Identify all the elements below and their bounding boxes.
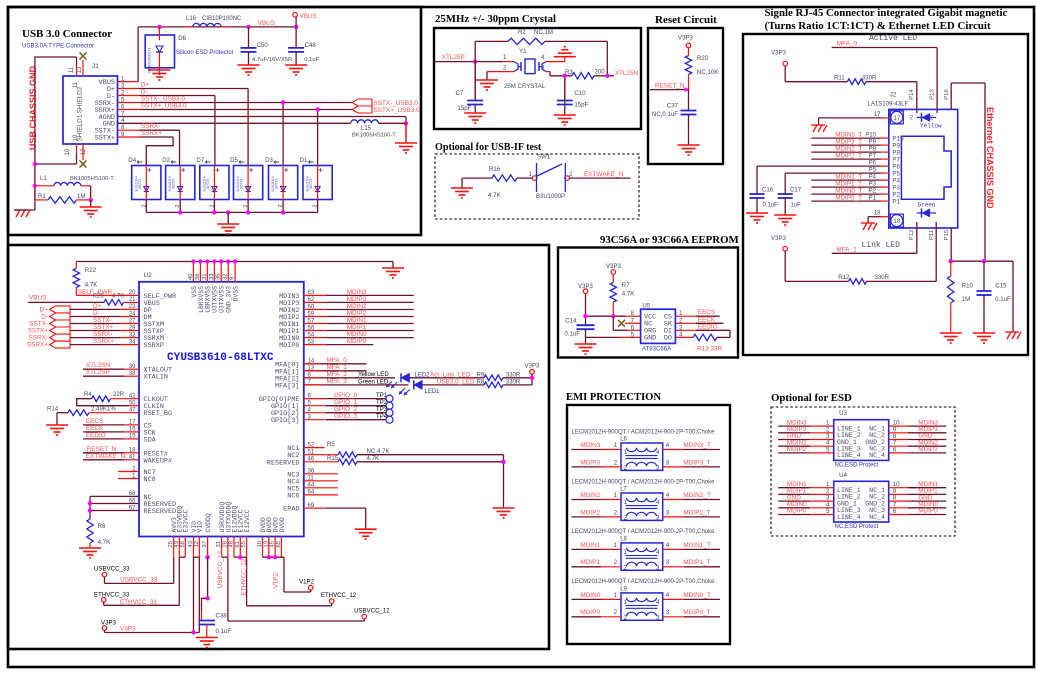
ground D6 — [148, 69, 170, 71]
svg-text:C17: C17 — [790, 187, 802, 194]
resistor R22 — [75, 262, 77, 269]
wire SSRX- pin8 — [118, 129, 140, 131]
svg-text:V1P2: V1P2 — [272, 572, 279, 588]
svg-text:MDIN1_T: MDIN1_T — [835, 174, 862, 181]
svg-text:1: 1 — [624, 549, 628, 556]
svg-text:3: 3 — [656, 464, 660, 471]
wire ETHVCC_12 net — [234, 556, 247, 558]
svg-text:MDIP2: MDIP2 — [787, 446, 807, 453]
svg-text:GND: GND — [644, 335, 656, 343]
wire U3 left pin 1 — [778, 425, 810, 427]
svg-text:D2: D2 — [162, 157, 170, 164]
svg-text:MDIP0: MDIP0 — [918, 508, 938, 515]
diode D5 — [234, 166, 263, 200]
svg-text:VBUS: VBUS — [29, 295, 46, 302]
svg-text:LECM2012H-900QT / ACM2012H-900: LECM2012H-900QT / ACM2012H-900-2P-T00,Ch… — [572, 429, 716, 435]
wire Y1 pin3 down — [549, 72, 551, 76]
svg-text:SOT23: SOT23 — [309, 179, 313, 189]
svg-text:EECS: EECS — [698, 309, 715, 316]
svg-text:NC,ESD Protect: NC,ESD Protect — [835, 463, 879, 469]
LED LED2 — [401, 373, 410, 382]
wire SSRX+ row — [70, 344, 120, 346]
wire R4 to CLKIN — [77, 399, 129, 406]
svg-text:SSTX+_USB3.0: SSTX+_USB3.0 — [374, 107, 420, 114]
svg-text:C50: C50 — [257, 42, 269, 49]
wire NC7 stub — [118, 471, 139, 473]
wire EECS — [83, 424, 124, 426]
resistor R6 — [87, 519, 93, 543]
svg-text:15pF: 15pF — [458, 105, 472, 112]
svg-text:MDIN3_T: MDIN3_T — [835, 132, 862, 139]
svg-text:NC,10K: NC,10K — [697, 69, 718, 76]
wire MFA_2 row — [304, 377, 395, 379]
wire R5-R15 join — [503, 455, 505, 508]
svg-text:MFA_1: MFA_1 — [836, 246, 857, 253]
wire MDIN2 choke in — [572, 499, 602, 501]
wire NC1 stub — [304, 447, 325, 449]
wire MDIP0_T choke out — [663, 616, 684, 618]
wire NC pin7 — [625, 322, 641, 324]
svg-text:LA1S109-43LF: LA1S109-43LF — [868, 102, 909, 108]
wire MDIN3 choke in — [572, 449, 602, 451]
wire EECK — [675, 322, 696, 324]
svg-text:MFA_3: MFA_3 — [327, 378, 348, 385]
wire D- pin2 — [118, 95, 140, 97]
svg-text:MDIP1_T: MDIP1_T — [835, 181, 862, 188]
wire L1-R1 loop — [34, 186, 36, 200]
svg-text:USB CHASSIS GND: USB CHASSIS GND — [28, 65, 38, 150]
svg-text:D4: D4 — [128, 157, 136, 164]
svg-text:SW1: SW1 — [537, 154, 551, 161]
svg-text:SDA: SDA — [144, 436, 157, 444]
IC bottom pin stubs — [173, 537, 175, 558]
svg-text:D+: D+ — [40, 306, 49, 313]
svg-text:VBUS: VBUS — [300, 13, 317, 20]
wire SSRX- row — [70, 337, 120, 339]
VSS stubs — [192, 262, 194, 282]
svg-text:D1: D1 — [300, 157, 308, 164]
svg-text:Act_Link_LED: Act_Link_LED — [430, 371, 471, 378]
junction R1 out — [89, 198, 93, 202]
wire MFA_1 — [304, 370, 367, 372]
svg-text:D7: D7 — [196, 157, 204, 164]
ground VSS rail — [382, 267, 404, 269]
svg-text:L9: L9 — [620, 586, 627, 592]
svg-text:L15: L15 — [361, 126, 372, 132]
wire chassis bottom rail — [951, 260, 1013, 262]
LED LED1 — [414, 380, 423, 389]
svg-text:GPIO_3: GPIO_3 — [334, 413, 358, 420]
junction reserved2 — [88, 508, 92, 512]
svg-text:18: 18 — [874, 211, 881, 217]
svg-text:22R: 22R — [113, 391, 125, 398]
ground R6 — [79, 547, 101, 549]
junction led v3p3 — [530, 376, 534, 380]
wire U3 right pin 9 — [889, 432, 908, 434]
svg-text:VSS: VSS — [191, 286, 198, 298]
wires MDI_T rows to rj45 — [811, 137, 881, 139]
svg-text:ETHVCC_12: ETHVCC_12 — [321, 592, 357, 599]
svg-text:E33VCC: E33VCC — [183, 509, 190, 532]
svg-text:D3: D3 — [265, 157, 273, 164]
svg-text:Active LED: Active LED — [869, 34, 917, 43]
svg-text:EEDIO: EEDIO — [86, 432, 106, 439]
diode D7 — [200, 166, 229, 200]
junction VCC-C14 — [583, 314, 587, 318]
svg-text:Yellow: Yellow — [920, 123, 942, 130]
svg-text:SSTX-: SSTX- — [93, 317, 112, 324]
wire MDIN0 choke in — [572, 598, 602, 600]
wire D+ row — [70, 308, 120, 310]
chassis ground USB left — [14, 209, 28, 211]
wire SSTX+ pin6 — [118, 109, 140, 111]
nc mark pin12 — [80, 161, 87, 168]
main IC section box — [8, 245, 549, 649]
svg-text:D5: D5 — [230, 157, 238, 164]
svg-text:MDIN3: MDIN3 — [347, 289, 367, 296]
svg-text:MDIP1: MDIP1 — [347, 324, 367, 331]
wire P16 chassis — [950, 83, 952, 109]
svg-text:ETHVCC_33: ETHVCC_33 — [120, 599, 157, 606]
wire EECK — [83, 431, 124, 433]
svg-text:MDIN1: MDIN1 — [347, 317, 367, 324]
svg-text:P3: P3 — [869, 182, 877, 188]
svg-text:5: 5 — [826, 508, 830, 515]
wire GND row — [586, 336, 621, 338]
capacitor C16 — [756, 166, 758, 194]
svg-text:SSTX+: SSTX+ — [28, 328, 49, 335]
svg-text:3: 3 — [656, 514, 660, 521]
wire U4 left pin 5 — [778, 514, 810, 516]
svg-text:XTL2SP: XTL2SP — [86, 369, 110, 376]
wire U4 right pin 8 — [889, 500, 908, 502]
wire D- row — [70, 316, 120, 318]
svg-text:4.7K: 4.7K — [367, 455, 380, 462]
junction SSTX- to D3 — [281, 100, 285, 104]
diode D1 — [303, 166, 332, 200]
svg-text:A1: A1 — [909, 114, 914, 120]
svg-text:V3P3: V3P3 — [771, 235, 787, 242]
wire P15 down — [950, 228, 952, 261]
wire U3 right pin 10 — [889, 425, 908, 427]
svg-text:P14: P14 — [909, 89, 915, 100]
svg-text:SSRX-: SSRX- — [93, 331, 112, 338]
svg-text:4: 4 — [666, 592, 670, 599]
junction V3P3 vio — [191, 630, 195, 634]
wire MDIP1 choke in — [572, 566, 602, 568]
svg-text:MDIN3: MDIN3 — [580, 442, 601, 449]
wire U4 right pin 10 — [889, 487, 908, 489]
eeprom U5 — [641, 309, 676, 343]
svg-text:SSRX-: SSRX- — [28, 335, 48, 342]
svg-text:NC,1M: NC,1M — [534, 29, 553, 36]
wire U3 left pin 4 — [778, 445, 810, 447]
svg-text:1: 1 — [624, 599, 628, 606]
svg-text:1M: 1M — [77, 193, 85, 200]
svg-text:MFA_1: MFA_1 — [327, 364, 348, 371]
ground diode common — [227, 212, 229, 224]
svg-text:0.1uF: 0.1uF — [216, 628, 232, 635]
port flag SSTX-_USB3.0 — [352, 99, 372, 106]
svg-text:R5: R5 — [327, 441, 335, 448]
ground C50 — [238, 64, 260, 66]
svg-text:GPIO_1: GPIO_1 — [334, 399, 358, 406]
svg-text:D+: D+ — [93, 303, 102, 310]
capacitor C15 — [983, 261, 985, 291]
port flag D- left — [50, 313, 70, 320]
svg-text:XTL2SN: XTL2SN — [86, 362, 111, 369]
junction CVDDQ jog — [205, 596, 209, 600]
svg-text:MDIP2_T: MDIP2_T — [683, 509, 710, 516]
svg-text:MDIP2_T: MDIP2_T — [835, 153, 862, 160]
svg-text:4: 4 — [656, 499, 660, 506]
wire USBVCC_33 net — [173, 557, 175, 583]
svg-text:4: 4 — [666, 442, 670, 449]
svg-text:MDIP3_T: MDIP3_T — [835, 139, 862, 146]
svg-text:CYUSB3610-68LTXC: CYUSB3610-68LTXC — [167, 352, 274, 364]
wire diode commons — [146, 211, 317, 213]
svg-text:MDIP1_T: MDIP1_T — [683, 559, 710, 566]
svg-text:200: 200 — [595, 69, 606, 76]
wire XTALIN — [83, 375, 124, 377]
svg-text:Reset Circuit: Reset Circuit — [655, 14, 717, 26]
svg-text:V3P3: V3P3 — [771, 50, 787, 57]
svg-text:XTL25N: XTL25N — [615, 70, 639, 77]
wire Y1 pin2 gnd — [486, 72, 488, 80]
svg-text:USBVCC_33: USBVCC_33 — [94, 566, 130, 573]
wire SSTX+ row — [70, 330, 120, 332]
wire J1 shield top — [76, 66, 78, 76]
svg-text:U2: U2 — [144, 272, 153, 279]
svg-text:4.7K: 4.7K — [98, 539, 111, 546]
svg-text:LECM2012H-900QT / ACM2012H-900: LECM2012H-900QT / ACM2012H-900-2P-T00,Ch… — [572, 579, 716, 585]
svg-text:V3P3: V3P3 — [525, 363, 541, 370]
port flag SSTX+ left — [50, 327, 70, 334]
svg-text:R2: R2 — [518, 29, 526, 36]
wire U4 left pin 2 — [778, 493, 810, 495]
svg-text:USB 3.0 Connector: USB 3.0 Connector — [22, 28, 112, 40]
svg-text:USBVCC_12: USBVCC_12 — [354, 607, 390, 614]
svg-text:V1P2: V1P2 — [299, 578, 315, 585]
svg-text:Green LED: Green LED — [358, 380, 389, 386]
svg-text:MDIN2_T: MDIN2_T — [835, 146, 862, 153]
svg-text:SOT23: SOT23 — [138, 179, 142, 189]
svg-text:LINE_4: LINE_4 — [837, 514, 861, 521]
svg-text:P9: P9 — [892, 142, 900, 149]
svg-text:R1: R1 — [38, 193, 46, 200]
diode D4 — [132, 166, 161, 200]
svg-text:P9: P9 — [869, 140, 877, 146]
ground Y1 pin4 — [554, 56, 576, 58]
svg-text:MDIN1_T: MDIN1_T — [683, 542, 711, 549]
wire USBVCC_12 net — [222, 556, 228, 558]
wires GPIO rows and test points — [304, 398, 326, 400]
svg-text:SSRXP: SSRXP — [144, 342, 164, 350]
svg-text:MDIN2: MDIN2 — [580, 492, 601, 499]
svg-text:P8: P8 — [892, 149, 900, 156]
svg-text:2: 2 — [624, 464, 628, 471]
resistor R20 — [688, 48, 690, 56]
junction VBUS-C48 — [294, 25, 298, 29]
svg-text:1uF: 1uF — [791, 203, 802, 209]
svg-text:SOT23: SOT23 — [206, 179, 210, 189]
junction VBUS-C50 — [246, 25, 250, 29]
svg-text:MDIN2: MDIN2 — [347, 303, 367, 310]
wire R3-C10 — [564, 76, 566, 104]
wire U4 right pin 7 — [889, 507, 908, 509]
svg-text:RESET_N: RESET_N — [87, 446, 117, 453]
svg-text:MDIN2_T: MDIN2_T — [683, 492, 711, 499]
wire MDIN3_T choke out — [663, 449, 684, 451]
svg-text:WAKEUP#: WAKEUP# — [144, 457, 173, 465]
wire R14 gnd — [56, 413, 58, 425]
svg-text:B3U1000P: B3U1000P — [536, 194, 565, 200]
junction reserved1 — [88, 501, 92, 505]
svg-text:LINE_4: LINE_4 — [837, 452, 861, 459]
wire MFA_0 — [304, 363, 367, 365]
svg-text:U3TXVSS: U3TXVSS — [219, 286, 226, 313]
svg-text:2: 2 — [614, 459, 618, 466]
nc mark pin13 — [80, 53, 87, 60]
wire MDIN1_T choke out — [663, 548, 684, 550]
svg-text:E12VCC: E12VCC — [244, 509, 251, 532]
wire MDIN2_T choke out — [663, 499, 684, 501]
svg-text:MDIN0: MDIN0 — [580, 592, 601, 599]
junction SSTX+ to D1 — [315, 107, 319, 111]
svg-text:XTL25P: XTL25P — [442, 54, 465, 61]
svg-text:4.7K: 4.7K — [622, 291, 635, 298]
svg-text:MDIP0: MDIP0 — [347, 338, 367, 345]
svg-text:2: 2 — [614, 559, 618, 566]
svg-text:MDIP3_T: MDIP3_T — [683, 459, 710, 466]
svg-text:V3P3: V3P3 — [120, 626, 136, 633]
svg-text:R22: R22 — [85, 267, 97, 274]
wire NC/RESERVED left — [90, 495, 139, 497]
svg-text:D+: D+ — [141, 82, 150, 89]
svg-text:RESERVED: RESERVED — [267, 459, 300, 467]
svg-text:4: 4 — [656, 549, 660, 556]
wire R12 row — [784, 251, 786, 281]
svg-text:CIB10P100NC: CIB10P100NC — [202, 16, 242, 22]
wire ORG row — [612, 316, 614, 330]
svg-text:MDIP0: MDIP0 — [279, 342, 299, 350]
wire XTALOUT — [83, 368, 124, 370]
svg-text:V3P3: V3P3 — [678, 35, 694, 42]
svg-text:MFA_0: MFA_0 — [327, 357, 348, 364]
svg-text:V3P3: V3P3 — [606, 263, 622, 270]
chassis ground rj45 right — [1005, 331, 1019, 333]
svg-text:2: 2 — [614, 609, 618, 616]
svg-text:12: 12 — [81, 148, 87, 155]
EEPROM section box — [558, 248, 738, 358]
wire DO-DI loop — [729, 330, 731, 337]
reset circuit section box — [648, 28, 723, 164]
svg-text:EMI PROTECTION: EMI PROTECTION — [566, 392, 661, 403]
ground C15 — [973, 332, 995, 334]
svg-text:P1: P1 — [869, 196, 877, 202]
wire D+ pin3 — [118, 88, 140, 90]
port flag SSRX+ left — [50, 341, 70, 348]
svg-text:LECM2012H-900QT / ACM2012H-900: LECM2012H-900QT / ACM2012H-900-2P-T00,Ch… — [572, 479, 716, 485]
svg-text:R7: R7 — [622, 282, 630, 289]
diode D3 — [269, 166, 298, 200]
svg-text:2: 2 — [624, 614, 628, 621]
svg-text:P3: P3 — [892, 184, 900, 191]
wire U4 left pin 4 — [778, 507, 810, 509]
svg-text:Optional for USB-IF test: Optional for USB-IF test — [435, 142, 542, 153]
svg-text:NC,ESD Protect: NC,ESD Protect — [835, 524, 879, 530]
svg-text:4.7K: 4.7K — [488, 192, 501, 199]
svg-text:17: 17 — [874, 112, 881, 118]
svg-text:ETHVCC_12: ETHVCC_12 — [241, 558, 248, 595]
svg-text:K1: K1 — [929, 114, 934, 120]
pin17 wire — [819, 117, 881, 119]
svg-text:3: 3 — [666, 559, 670, 566]
wire U4 right pin 6 — [889, 514, 908, 516]
svg-text:R13 33R: R13 33R — [697, 346, 723, 353]
connector J1 — [63, 76, 118, 144]
svg-text:R6: R6 — [98, 523, 106, 530]
svg-text:MDIP0: MDIP0 — [580, 609, 600, 616]
svg-text:C14: C14 — [565, 318, 577, 325]
wire XTL25P — [434, 61, 502, 63]
svg-text:C16: C16 — [762, 187, 774, 194]
wire AGND pin7 — [118, 116, 407, 118]
wire U3 right pin 6 — [889, 452, 908, 454]
svg-text:USB3.0A TYPE Connector: USB3.0A TYPE Connector — [22, 43, 94, 50]
svg-text:SSTX-_USB3.0: SSTX-_USB3.0 — [141, 96, 186, 103]
svg-text:RESERVED: RESERVED — [144, 508, 177, 516]
svg-text:USB3.0_LED: USB3.0_LED — [437, 378, 475, 385]
svg-text:C10: C10 — [574, 90, 586, 97]
svg-text:R4: R4 — [84, 391, 92, 398]
wire SELF_PWR — [76, 294, 139, 296]
svg-text:SSRX+: SSRX+ — [27, 342, 48, 349]
wire SSTX- pin5 — [118, 102, 140, 104]
svg-text:NC_4: NC_4 — [869, 514, 885, 521]
svg-text:U3: U3 — [839, 410, 847, 417]
ground C48 — [285, 64, 307, 66]
svg-text:Green: Green — [918, 202, 936, 209]
svg-text:1: 1 — [614, 542, 618, 549]
svg-text:D-: D- — [93, 310, 100, 317]
svg-text:SSRX+: SSRX+ — [141, 130, 162, 137]
svg-text:Silicon ESD Protector: Silicon ESD Protector — [176, 50, 234, 56]
wire MDIP3_T choke out — [663, 466, 684, 468]
svg-text:MDIP3: MDIP3 — [580, 459, 600, 466]
port flag SSRX- left — [50, 334, 70, 341]
wire R16 gnd — [461, 178, 463, 188]
svg-text:NC_4: NC_4 — [869, 452, 885, 459]
svg-text:SSTX+: SSTX+ — [93, 324, 114, 331]
svg-text:P2: P2 — [892, 191, 900, 198]
svg-text:U5: U5 — [642, 303, 650, 310]
svg-text:L7: L7 — [620, 487, 627, 493]
svg-text:P5: P5 — [892, 170, 900, 177]
svg-text:SSRX+: SSRX+ — [93, 338, 114, 345]
svg-text:USBVCC_33: USBVCC_33 — [120, 576, 158, 583]
wire EXTWAKE_N ic — [83, 459, 124, 461]
svg-text:NC,4.7K: NC,4.7K — [367, 448, 390, 455]
power port VBUS — [293, 12, 298, 17]
svg-text:J1: J1 — [92, 63, 99, 70]
wire CVDDQ C38 — [205, 555, 209, 559]
svg-text:2.49K1%: 2.49K1% — [91, 406, 116, 413]
svg-text:D-: D- — [141, 89, 148, 96]
svg-text:(Turns Ratio 1CT:1CT) & Ethern: (Turns Ratio 1CT:1CT) & Ethernet LED Cir… — [765, 20, 991, 32]
svg-text:1: 1 — [614, 442, 618, 449]
resistor R7 — [612, 274, 614, 282]
